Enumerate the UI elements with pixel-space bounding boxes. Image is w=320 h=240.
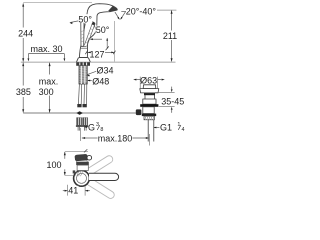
- svg-text:max.180: max.180: [98, 134, 133, 144]
- svg-text:300: 300: [39, 87, 54, 97]
- svg-text:127: 127: [89, 50, 104, 60]
- svg-text:Ø34: Ø34: [97, 65, 114, 75]
- svg-text:4: 4: [182, 127, 185, 133]
- svg-text:G: G: [88, 123, 95, 133]
- svg-text:max.: max.: [39, 77, 59, 87]
- svg-text:20°-40°: 20°-40°: [126, 6, 157, 16]
- svg-text:Ø48: Ø48: [92, 77, 109, 87]
- svg-text:50°: 50°: [78, 14, 92, 24]
- svg-text:50°: 50°: [96, 25, 110, 35]
- svg-text:41: 41: [68, 186, 78, 196]
- svg-text:385: 385: [16, 87, 31, 97]
- svg-text:Ø63: Ø63: [140, 75, 157, 85]
- svg-text:211: 211: [163, 31, 177, 41]
- svg-text:G1: G1: [160, 123, 172, 133]
- svg-text:100: 100: [46, 160, 61, 170]
- svg-text:max. 30: max. 30: [31, 44, 63, 54]
- svg-text:8: 8: [100, 127, 103, 133]
- svg-text:35-45: 35-45: [161, 97, 184, 107]
- svg-text:244: 244: [18, 29, 33, 39]
